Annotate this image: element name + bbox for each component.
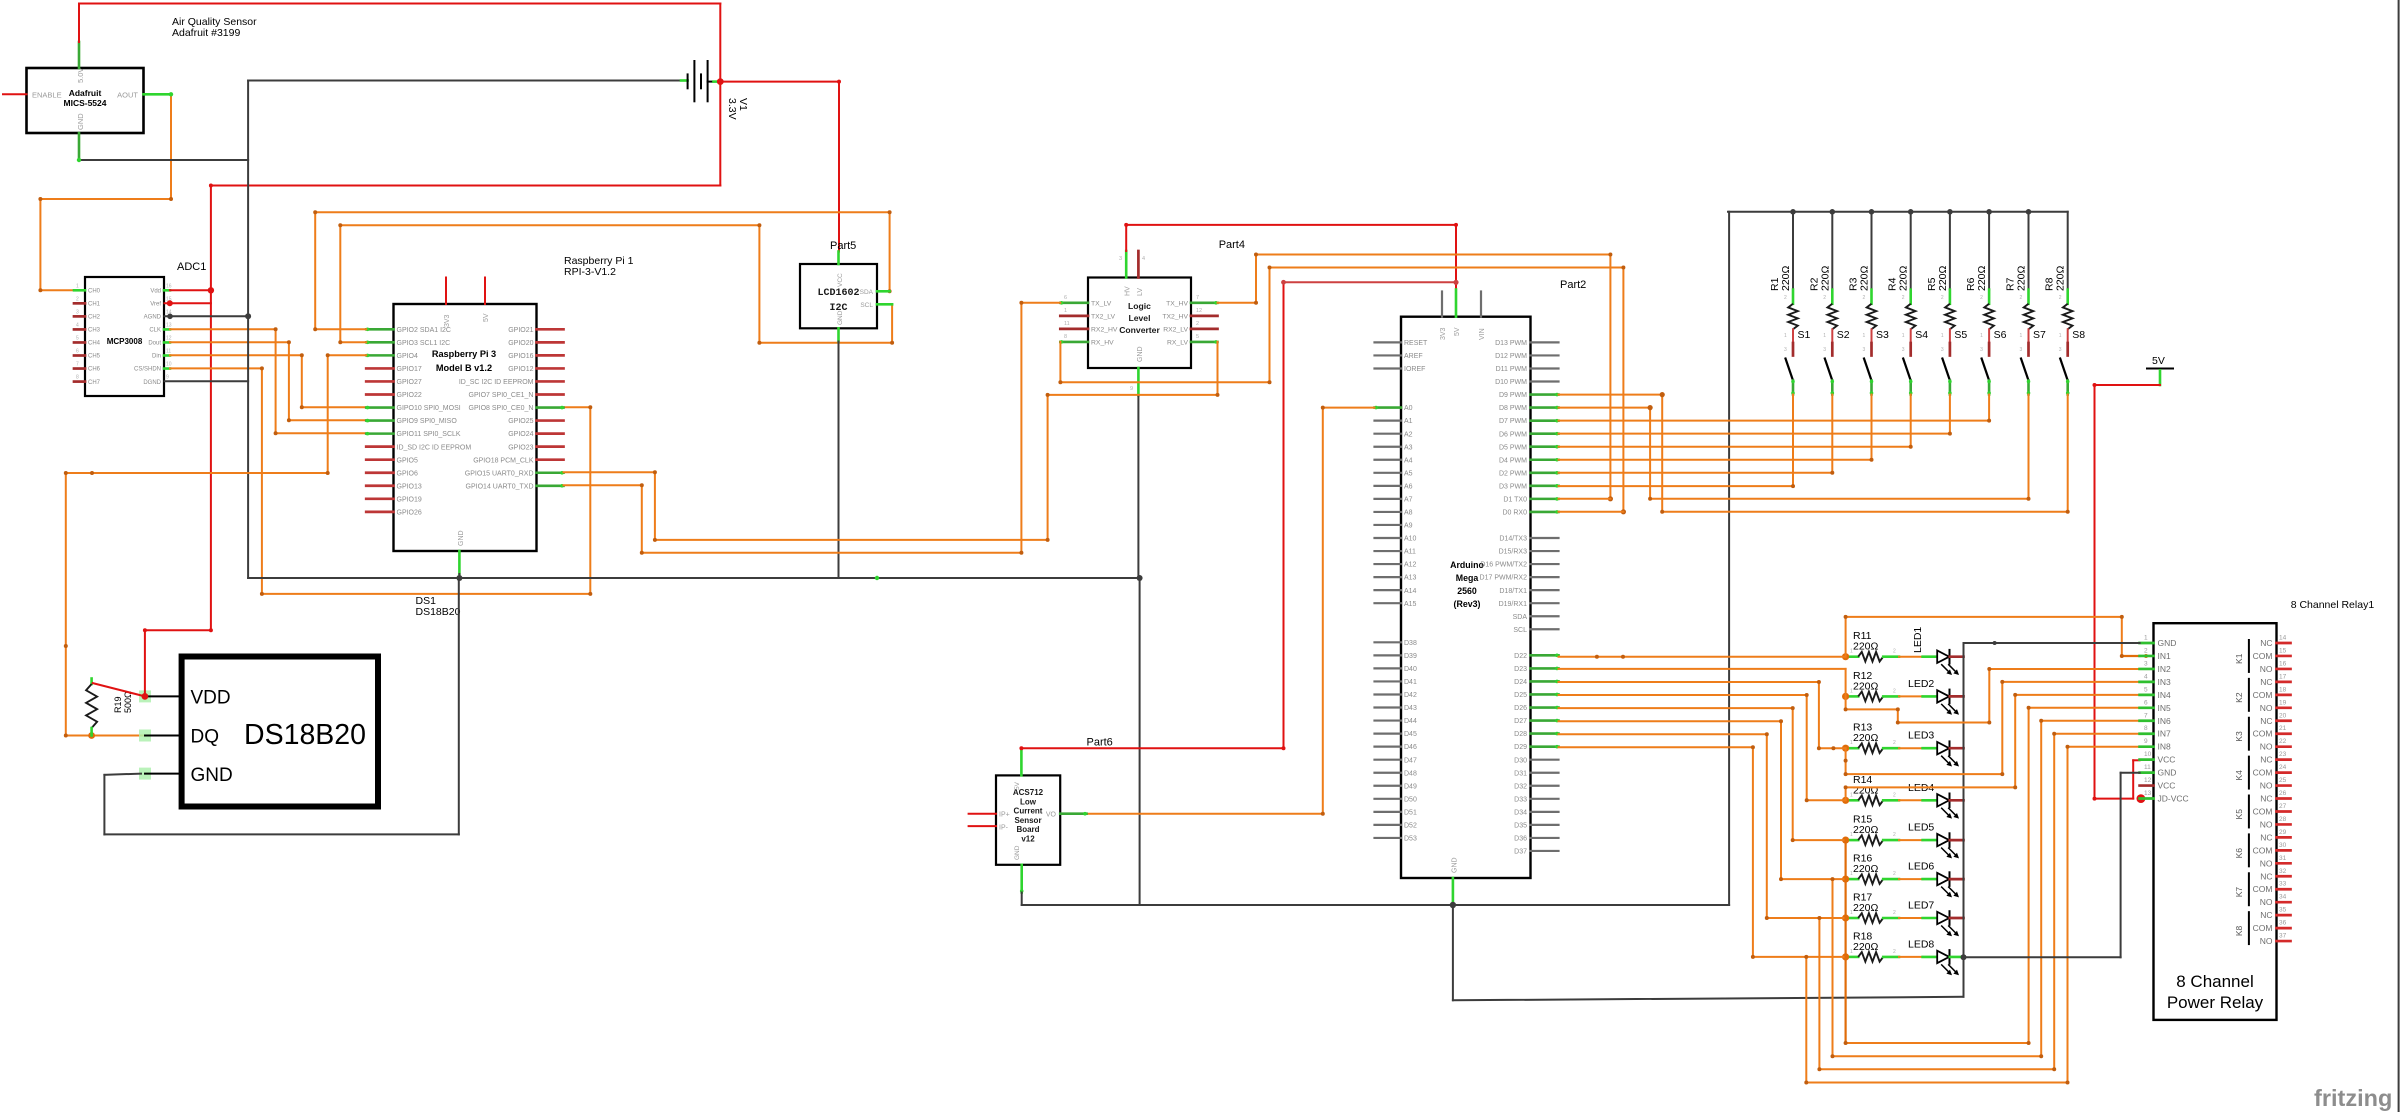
pin logic TX2_LV (1060, 314, 1088, 317)
pin RPi GPIO13 (366, 484, 393, 487)
svg-text:K3: K3 (2234, 731, 2244, 742)
svg-text:COM: COM (2253, 729, 2273, 739)
pin Arduino A6 (1375, 485, 1402, 487)
pin Arduino D44 (1375, 719, 1402, 721)
pin Arduino A9 (1375, 524, 1402, 526)
svg-text:220Ω: 220Ω (1853, 732, 1879, 744)
pin relay IN4 (5) (2140, 693, 2154, 696)
pin Arduino D29 (1531, 745, 1559, 748)
relay contact group K3 (2248, 718, 2250, 750)
svg-text:Level: Level (1129, 313, 1151, 323)
pin LCD SDA stub (877, 290, 890, 293)
svg-text:D46: D46 (1404, 744, 1417, 751)
wire S8 to Arduino D9 (2067, 395, 2069, 512)
svg-text:GPIO24: GPIO24 (508, 431, 533, 438)
svg-text:NO: NO (2260, 897, 2273, 907)
svg-text:A15: A15 (1404, 601, 1417, 608)
svg-text:1: 1 (1850, 949, 1853, 955)
pin RPi GPIO16 (537, 354, 564, 357)
svg-text:COM: COM (2253, 845, 2273, 855)
wire Arduino D27 to R16 (1559, 720, 1782, 722)
wire R18 branch to relay IN8 (1805, 957, 1807, 1083)
svg-text:Part4: Part4 (1219, 239, 1245, 251)
pin RPi 3V3 top (445, 278, 447, 305)
svg-text:GND: GND (2158, 638, 2177, 648)
svg-text:K6: K6 (2234, 848, 2244, 859)
wire logic HV to Arduino 5V red (1125, 225, 1127, 251)
pin Arduino D19/RX1 (1531, 602, 1559, 604)
IC U-ADC1 MCP3008 (85, 277, 164, 396)
svg-text:GPIO19: GPIO19 (397, 496, 422, 503)
svg-text:12: 12 (2144, 777, 2152, 784)
pin Arduino D26 (1531, 706, 1559, 709)
pin Arduino D53 (1375, 837, 1402, 839)
battery V1 3.3V (248, 80, 681, 82)
wire ACS712 GND to lower rail (1021, 893, 1023, 906)
svg-text:500Ω: 500Ω (123, 691, 133, 713)
pin MCP3008 CH7 (74, 380, 85, 383)
svg-text:D0 RX0: D0 RX0 (1502, 510, 1527, 517)
svg-text:S3: S3 (1876, 329, 1889, 341)
svg-text:IN5: IN5 (2158, 703, 2172, 713)
svg-text:IP-: IP- (999, 825, 1009, 832)
svg-text:20: 20 (2279, 712, 2287, 719)
wire relay GND pin11 (2121, 772, 2140, 774)
wire logic GND to ground rail (1137, 395, 1139, 578)
wire Arduino D25 to R14 (1559, 694, 1807, 696)
pin RPi GPIO14 UART0_TXD (537, 484, 564, 487)
svg-text:3: 3 (1863, 347, 1866, 353)
svg-text:NO: NO (2260, 858, 2273, 868)
svg-text:S5: S5 (1954, 329, 1967, 341)
svg-text:D13 PWM: D13 PWM (1495, 340, 1527, 347)
svg-text:CS/SHDN: CS/SHDN (134, 367, 161, 373)
pin Arduino D36 (1531, 837, 1559, 839)
svg-text:CH5: CH5 (88, 354, 101, 360)
pin relay IN7 (8) (2140, 732, 2154, 735)
svg-text:NO: NO (2260, 781, 2273, 791)
svg-text:VCC: VCC (2158, 755, 2176, 765)
svg-text:3: 3 (1784, 347, 1787, 353)
svg-text:GPIO9 SPI0_MISO: GPIO9 SPI0_MISO (397, 418, 458, 425)
svg-text:COM: COM (2253, 768, 2273, 778)
pin relay NC (23) (2277, 758, 2291, 761)
svg-text:D4 PWM: D4 PWM (1499, 457, 1527, 464)
wire MICS GND to ground rail (79, 159, 248, 161)
svg-text:D14/TX3: D14/TX3 (1499, 536, 1527, 543)
svg-text:GPIO21: GPIO21 (508, 327, 533, 334)
svg-text:D9 PWM: D9 PWM (1499, 392, 1527, 399)
pin Arduino A14 (1375, 589, 1402, 591)
svg-text:2: 2 (2020, 295, 2023, 301)
svg-text:5V: 5V (483, 313, 490, 322)
svg-text:3: 3 (2020, 347, 2023, 353)
svg-text:IN6: IN6 (2158, 716, 2172, 726)
svg-text:4: 4 (1142, 256, 1145, 262)
pin RPi GPIO24 (537, 432, 564, 435)
svg-text:D47: D47 (1404, 757, 1417, 764)
pin Arduino D47 (1375, 759, 1402, 761)
svg-text:Current: Current (1014, 807, 1043, 816)
pin Arduino D34 (1531, 811, 1559, 813)
svg-text:GPIO23: GPIO23 (508, 444, 533, 451)
LED LED8 (1899, 956, 1923, 958)
svg-text:DS18B20: DS18B20 (416, 606, 461, 618)
wire AOUT green stub (144, 93, 172, 96)
svg-text:10: 10 (2144, 751, 2152, 758)
svg-text:RX_LV: RX_LV (1167, 340, 1188, 347)
svg-text:Power Relay: Power Relay (2167, 993, 2264, 1012)
pin Arduino D41 (1375, 680, 1402, 682)
svg-text:220Ω: 220Ω (2055, 265, 2067, 291)
LED LED2 (1899, 695, 1923, 697)
pin relay IN1 (2) (2140, 655, 2154, 658)
svg-text:S2: S2 (1837, 329, 1850, 341)
pin Arduino A7 (1375, 498, 1402, 500)
svg-text:TX_HV: TX_HV (1166, 300, 1188, 307)
pin relay COM (15) (2277, 655, 2291, 658)
pin Arduino IOREF (1375, 367, 1402, 369)
relay contact group K8 (2248, 912, 2250, 944)
wire logic RX_LV to RPi GPIO15 RXD (1217, 342, 1219, 395)
pin RPi GPIO12 (537, 367, 564, 370)
svg-text:ID_SC I2C ID EEPROM: ID_SC I2C ID EEPROM (459, 379, 534, 386)
pin Arduino D25 (1531, 693, 1559, 696)
svg-text:Adafruit: Adafruit (69, 88, 102, 98)
svg-text:29: 29 (2279, 829, 2287, 836)
svg-text:D35: D35 (1514, 822, 1527, 829)
pin RPi GPIO18 PCM_CLK (537, 458, 564, 461)
relay contact group K4 (2248, 757, 2250, 789)
pin Arduino D7 PWM (1531, 419, 1559, 422)
pin Arduino D42 (1375, 693, 1402, 695)
pin Arduino D5 PWM (1531, 445, 1559, 448)
svg-text:GND: GND (1137, 346, 1144, 362)
svg-text:ID_SD I2C ID EEPROM: ID_SD I2C ID EEPROM (397, 444, 472, 451)
svg-text:(Rev3): (Rev3) (1454, 599, 1481, 609)
wire S2 to Arduino D2 (1831, 395, 1833, 473)
pin Arduino D13 PWM (1531, 341, 1559, 343)
pin relay IN8 (9) (2140, 745, 2154, 748)
pin RPi GPIO9 SPI0_MISO (366, 419, 393, 422)
svg-text:A12: A12 (1404, 562, 1417, 569)
svg-text:3: 3 (1823, 347, 1826, 353)
pin Arduino D6 PWM (1531, 432, 1559, 435)
svg-text:LCD1602: LCD1602 (817, 288, 859, 299)
wire R15 junction to relay IN5 (1844, 840, 1846, 1043)
svg-text:220Ω: 220Ω (2016, 265, 2028, 291)
svg-text:1: 1 (1823, 333, 1826, 339)
wire logic RX_HV to Arduino D0 RX0 (1059, 342, 1061, 382)
svg-text:D24: D24 (1514, 679, 1527, 686)
svg-text:SDA: SDA (1513, 614, 1528, 621)
svg-text:1: 1 (2059, 333, 2062, 339)
pin Arduino D22 (1531, 654, 1559, 657)
pin Arduino 5V top (1455, 290, 1458, 317)
svg-text:TX2_HV: TX2_HV (1162, 313, 1188, 320)
wire switch top rail black (1728, 211, 2068, 213)
wire RPi GPIO4 to DS18B20 DQ (328, 354, 367, 356)
svg-text:CH0: CH0 (88, 289, 101, 295)
svg-text:D18/TX1: D18/TX1 (1499, 588, 1527, 595)
pin RPi GPIO21 (537, 328, 564, 331)
svg-text:16: 16 (166, 283, 172, 289)
svg-text:K7: K7 (2234, 887, 2244, 898)
svg-text:CH2: CH2 (88, 315, 101, 321)
pin Arduino D15/RX3 (1531, 550, 1559, 552)
svg-text:A11: A11 (1404, 549, 1416, 556)
pin RPi GPIO8 SPI0_CE0_N (537, 406, 564, 409)
switch S5 (1949, 329, 1951, 343)
svg-text:GPIO22: GPIO22 (397, 392, 422, 399)
svg-text:GND: GND (191, 765, 233, 786)
svg-text:GIPO10 SPI0_MOSI: GIPO10 SPI0_MOSI (397, 405, 461, 412)
svg-text:2: 2 (1196, 321, 1199, 327)
wire ground vertical left (247, 81, 249, 579)
svg-text:D25: D25 (1514, 692, 1527, 699)
IC ACS712 low current sensor (996, 775, 1060, 864)
pin MCP3008 CH1 (74, 302, 85, 305)
svg-text:16: 16 (2279, 660, 2287, 667)
pin logic HV top (1125, 251, 1128, 278)
svg-text:D50: D50 (1404, 796, 1417, 803)
pin Arduino A15 (1375, 602, 1402, 604)
svg-text:D40: D40 (1404, 666, 1417, 673)
svg-text:Adafruit #3199: Adafruit #3199 (172, 27, 240, 39)
wire R17 branch to relay IN7 (1818, 918, 1820, 1069)
svg-text:6: 6 (1064, 295, 1067, 301)
wire S5 to Arduino D6 (1949, 395, 1951, 434)
svg-text:A7: A7 (1404, 496, 1413, 503)
svg-text:NC: NC (2260, 755, 2272, 765)
svg-text:LED5: LED5 (1908, 822, 1934, 834)
svg-text:GND: GND (458, 530, 465, 546)
wire LCD GND to ground rail (838, 342, 840, 579)
svg-text:35: 35 (2279, 907, 2287, 914)
pin relay VCC (10) (2140, 758, 2154, 761)
svg-text:IN1: IN1 (2158, 651, 2172, 661)
svg-text:8: 8 (1064, 334, 1067, 340)
svg-text:GPIO4: GPIO4 (397, 353, 419, 360)
svg-text:D29: D29 (1514, 744, 1527, 751)
svg-text:220Ω: 220Ω (1853, 680, 1879, 692)
wire ACS712 5V to logic-side red (1021, 747, 1283, 749)
svg-text:Vdd: Vdd (150, 289, 161, 295)
wire 5.0V pin green (78, 42, 81, 68)
pin relay NO (34) (2277, 901, 2291, 904)
svg-text:1: 1 (76, 283, 79, 289)
svg-text:S8: S8 (2072, 329, 2085, 341)
pin Arduino D27 (1531, 719, 1559, 722)
IC 8 channel power relay (2154, 623, 2277, 1020)
pin relay NO (25) (2277, 784, 2291, 787)
wire Arduino D1 stub to TX_HV junction (1559, 498, 1611, 500)
switch S3 (1871, 329, 1873, 343)
pin Arduino AREF (1375, 354, 1402, 356)
svg-text:TX_LV: TX_LV (1091, 300, 1112, 307)
wire R12 junction to relay IN2 (1845, 696, 1847, 709)
pin relay NC (35) (2277, 914, 2291, 917)
switch S2 (1831, 329, 1833, 343)
svg-text:Mega: Mega (1456, 573, 1479, 583)
wire ground drop to lower rail (1139, 578, 1141, 905)
svg-text:MCP3008: MCP3008 (107, 337, 143, 346)
svg-text:1: 1 (1850, 740, 1853, 746)
svg-text:IN8: IN8 (2158, 742, 2172, 752)
svg-text:D2 PWM: D2 PWM (1499, 470, 1527, 477)
svg-text:220Ω: 220Ω (1853, 902, 1879, 914)
svg-text:220Ω: 220Ω (1937, 265, 1949, 291)
svg-text:GPIO7 SPI0_CE1_N: GPIO7 SPI0_CE1_N (469, 392, 534, 399)
pin ACS712 5V (1020, 748, 1023, 775)
pin RPi GPIO27 (366, 380, 393, 383)
pin Arduino A5 (1375, 472, 1402, 474)
wire main ground rail (248, 577, 1140, 579)
svg-text:D51: D51 (1404, 809, 1417, 816)
svg-text:25: 25 (2279, 777, 2287, 784)
pin MCP3008 CH6 (74, 367, 85, 370)
svg-text:7: 7 (2144, 712, 2148, 719)
svg-text:DQ: DQ (191, 727, 220, 748)
svg-text:IN4: IN4 (2158, 690, 2172, 700)
svg-text:27: 27 (2279, 803, 2287, 810)
pin ACS712 GND (1020, 865, 1023, 893)
svg-text:220Ω: 220Ω (1853, 784, 1879, 796)
svg-text:3.3V: 3.3V (726, 98, 738, 120)
svg-text:K2: K2 (2234, 692, 2244, 703)
svg-text:VCC: VCC (2158, 781, 2176, 791)
svg-text:COM: COM (2253, 690, 2273, 700)
svg-text:D19/RX1: D19/RX1 (1499, 601, 1528, 608)
pin Arduino D31 (1531, 772, 1559, 774)
pin MCP3008 CH2 (74, 315, 85, 318)
pin Arduino D32 (1531, 785, 1559, 787)
svg-text:IN7: IN7 (2158, 729, 2172, 739)
svg-text:ENABLE: ENABLE (32, 91, 62, 100)
switch S7 (2028, 329, 2030, 343)
svg-text:1: 1 (1941, 333, 1944, 339)
svg-text:6: 6 (2144, 699, 2148, 706)
svg-text:12: 12 (166, 335, 172, 341)
svg-text:1: 1 (1850, 832, 1853, 838)
pin relay IN6 (7) (2140, 719, 2154, 722)
svg-text:9: 9 (1130, 386, 1133, 392)
wire Arduino D29 to R18 (1559, 746, 1753, 748)
pin logic TX_LV (1060, 301, 1088, 304)
wire logic TX_HV to Arduino D1 TX0 (1218, 302, 1257, 304)
wire LED cathode ground rail (1963, 643, 1965, 997)
wire DS18B20 GND to RPi ground (104, 774, 141, 775)
svg-text:GPIO17: GPIO17 (397, 366, 422, 373)
switch S1 (1792, 329, 1794, 343)
pin RPi GPIO6 (366, 471, 393, 474)
pin Arduino D18/TX1 (1531, 589, 1559, 591)
pin logic RX_LV (1191, 341, 1218, 344)
svg-text:18: 18 (2279, 686, 2287, 693)
pin ACS712 IP+ (969, 813, 996, 815)
pin logic TX2_HV (1191, 314, 1218, 317)
svg-text:GND: GND (2158, 768, 2177, 778)
svg-text:220Ω: 220Ω (1859, 265, 1871, 291)
svg-text:fritzing: fritzing (2314, 1085, 2392, 1111)
wire ground riser to switch rail (1728, 212, 1730, 905)
wire battery+ to LCD VCC (720, 81, 839, 83)
svg-text:D36: D36 (1514, 836, 1527, 843)
svg-text:D48: D48 (1404, 770, 1417, 777)
svg-text:1: 1 (1850, 910, 1853, 916)
pin RPi GPIO4 (366, 354, 393, 357)
svg-text:NO: NO (2260, 703, 2273, 713)
svg-text:DS18B20: DS18B20 (244, 719, 366, 751)
pin logic GND bottom (1137, 368, 1140, 395)
svg-text:Part6: Part6 (1087, 737, 1113, 749)
svg-text:R19: R19 (113, 696, 123, 713)
svg-text:2560: 2560 (1457, 586, 1477, 596)
svg-text:220Ω: 220Ω (1853, 863, 1879, 875)
svg-text:A9: A9 (1404, 523, 1413, 530)
svg-text:A5: A5 (1404, 470, 1413, 477)
svg-text:1: 1 (2144, 635, 2148, 642)
pin Arduino D8 PWM (1531, 406, 1559, 409)
svg-text:2: 2 (1893, 832, 1896, 838)
svg-text:A13: A13 (1404, 575, 1417, 582)
svg-text:GPIO16: GPIO16 (508, 353, 533, 360)
svg-text:1: 1 (1863, 333, 1866, 339)
wire logic TX_LV to RPi GPIO14 TXD (1021, 302, 1060, 304)
pin Arduino A4 (1375, 459, 1402, 461)
svg-text:RX2_LV: RX2_LV (1163, 326, 1188, 333)
svg-text:NC: NC (2260, 716, 2272, 726)
wire R13 junction to relay IN3 (1845, 748, 1847, 774)
switch S6 (1988, 329, 1990, 343)
relay contact group K6 (2248, 834, 2250, 866)
pin LCD VCC green (837, 252, 840, 265)
svg-text:SCL: SCL (1513, 627, 1527, 634)
svg-text:LV: LV (1137, 288, 1144, 296)
relay contact group K2 (2248, 679, 2250, 711)
wire red feed to DS18B20 VDD (144, 630, 146, 696)
LED LED1 (1899, 656, 1923, 658)
svg-text:VIN: VIN (1479, 328, 1486, 340)
pin relay NO (22) (2277, 745, 2291, 748)
wire top red rail to battery+ (79, 3, 720, 5)
relay contact group K1 (2248, 640, 2250, 672)
pin relay NO (37) (2277, 940, 2291, 943)
svg-text:D44: D44 (1404, 718, 1417, 725)
svg-text:23: 23 (2279, 751, 2287, 758)
pin relay COM (27) (2277, 810, 2291, 813)
svg-text:2: 2 (1893, 910, 1896, 916)
pin relay IN5 (6) (2140, 706, 2154, 709)
svg-text:5.0V: 5.0V (76, 68, 85, 83)
svg-text:GPIO12: GPIO12 (508, 366, 533, 373)
pin relay COM (30) (2277, 849, 2291, 852)
wire Arduino D28 to R17 (1559, 733, 1767, 735)
pin Arduino SCL (1531, 628, 1559, 630)
svg-text:GPIO6: GPIO6 (397, 470, 419, 477)
pin Arduino D49 (1375, 785, 1402, 787)
pin MCP3008 CH5 (74, 354, 85, 357)
svg-text:220Ω: 220Ω (1898, 265, 1910, 291)
svg-text:220Ω: 220Ω (1780, 265, 1792, 291)
svg-text:GND: GND (76, 113, 85, 130)
svg-text:2: 2 (1941, 295, 1944, 301)
pin Arduino A10 (1375, 537, 1402, 539)
wire R19 top to VDD red (93, 683, 145, 696)
svg-text:VO: VO (1046, 812, 1057, 819)
svg-text:GPIO18 PCM_CLK: GPIO18 PCM_CLK (473, 457, 534, 464)
svg-text:220Ω: 220Ω (1853, 641, 1879, 653)
